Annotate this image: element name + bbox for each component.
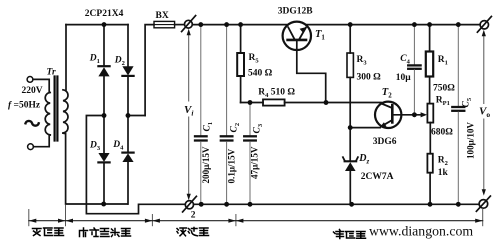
wire fuse riser from tap2: [145, 25, 154, 116]
node D3 bottom on AC2 line: [101, 202, 106, 207]
node R1 top: [427, 22, 432, 27]
svg-text:750Ω: 750Ω: [433, 84, 455, 94]
svg-text:R4 510 Ω: R4 510 Ω: [258, 88, 295, 100]
node C4 top: [412, 22, 417, 27]
wire primary top lead: [33, 79, 49, 92]
AC sine symbol: [26, 121, 39, 126]
node tap1 (D1 anode / D3 anode): [102, 113, 107, 118]
capacitor C4: [408, 25, 420, 115]
label Vo: [477, 104, 492, 119]
svg-text:47μ/15V: 47μ/15V: [250, 146, 260, 179]
junction dots overlay: [101, 22, 460, 207]
diode D2 (cathode down): [122, 25, 133, 116]
transformer Tr primary terminal top: [27, 77, 33, 83]
wire secondary top riser: [65, 25, 67, 90]
svg-text:3DG12B: 3DG12B: [278, 7, 314, 17]
node Dz bottom: [349, 202, 354, 207]
Vo arrow up: [482, 30, 486, 36]
svg-text:2: 2: [191, 211, 196, 221]
svg-text:2CW7A: 2CW7A: [361, 172, 394, 182]
svg-text:f =50Hz: f =50Hz: [8, 100, 41, 110]
svg-text:BX: BX: [156, 11, 169, 21]
capacitor C3: [244, 103, 256, 205]
wire negative bus from tap1: [86, 116, 185, 214]
node C3 top junction: [248, 100, 253, 105]
svg-text:220V: 220V: [22, 86, 43, 96]
dimension extension line x=482.7: [482, 210, 484, 226]
resistor R2: [427, 154, 432, 205]
transformer Tr secondary winding: [63, 90, 68, 133]
wire top rail bridge segment: [66, 24, 128, 26]
dimension extension line x=28.8: [28, 210, 30, 226]
transistor T1: [283, 22, 326, 103]
svg-text:3DG6: 3DG6: [373, 137, 397, 147]
node C2 bottom: [224, 202, 229, 207]
diode D4 (cathode up): [122, 116, 133, 205]
node bridge top junction: [102, 22, 107, 27]
dimension extension line x=152.4: [151, 215, 153, 226]
resistor R5: [237, 25, 244, 103]
resistor R1: [426, 25, 433, 104]
capacitor C2: [221, 25, 233, 205]
node R2 bottom: [428, 202, 433, 207]
node C2 top: [224, 22, 229, 27]
Vi arrow down: [187, 194, 191, 200]
diode D1 (cathode up): [98, 25, 109, 116]
svg-text:Tr: Tr: [47, 68, 56, 78]
wire bottom bus: [194, 203, 480, 205]
dimension extension line x=235.9: [235, 215, 237, 226]
transistor T2: [375, 102, 401, 128]
node C5 bottom: [456, 202, 461, 207]
Vi measurement line: [188, 34, 190, 197]
dimension line span transformer: [29, 220, 483, 222]
node zener top junction: [348, 125, 353, 130]
label Vi: [183, 102, 197, 118]
node C1 top: [199, 22, 204, 27]
wire primary bottom lead: [34, 135, 51, 147]
wire secondary bottom lead: [63, 133, 128, 204]
terminal output bottom-left "2" (circle with slash): [183, 196, 197, 212]
node T1 base junction: [324, 100, 329, 105]
svg-text:100μ/10V: 100μ/10V: [465, 122, 475, 159]
Vo measurement line: [483, 34, 485, 193]
node C5 top: [456, 22, 461, 27]
transformer Tr primary terminal bottom: [28, 144, 34, 150]
potentiometer Rp1: [427, 104, 433, 154]
Vo arrow down: [482, 189, 486, 195]
wire collector line y=102.5: [241, 102, 263, 104]
wire T2 base lead: [392, 114, 424, 116]
svg-text:0.1μ/15V: 0.1μ/15V: [226, 148, 236, 183]
svg-text:1k: 1k: [438, 168, 449, 178]
terminal output + (circle with slash): [477, 16, 491, 32]
Vi arrow up: [187, 29, 191, 35]
resistor R4: [263, 99, 285, 105]
node C4 bottom junction: [412, 113, 417, 118]
label section 稳压器 (regulator): [334, 230, 366, 239]
transformer Tr core: [55, 77, 58, 141]
svg-text:680Ω: 680Ω: [431, 128, 453, 138]
svg-text:200μ/15V: 200μ/15V: [201, 146, 211, 183]
label section 变压器 (transformer): [33, 228, 64, 236]
svg-text:10μ: 10μ: [396, 73, 412, 83]
transformer Tr primary winding: [45, 93, 50, 135]
terminal output bottom-right (circle with slash): [476, 196, 490, 211]
svg-text:540 Ω: 540 Ω: [248, 68, 273, 78]
capacitor C1: [195, 25, 207, 205]
zener diode Dz: [343, 128, 358, 205]
wire top rail left of T1: [192, 24, 287, 26]
node C3 bottom: [248, 202, 253, 207]
dimension extension line x=65.5: [65, 206, 67, 226]
capacitor C5: [452, 25, 464, 205]
wire R4 to T2 collector: [285, 102, 381, 104]
terminal input + (circle with slash): [182, 16, 196, 32]
svg-text:2CP21X4: 2CP21X4: [85, 9, 124, 19]
label section 桥式整流器 (bridge rectifier): [80, 228, 131, 237]
potentiometer wiper arrow: [421, 112, 427, 117]
svg-text:300 Ω: 300 Ω: [357, 72, 382, 82]
wire fuse to terminal 1: [175, 24, 185, 26]
node C1 bottom: [199, 202, 204, 207]
wire T2 emitter to zener: [350, 127, 380, 129]
resistor R3: [347, 25, 353, 128]
node tap2 (D2 cathode / D4 cathode): [126, 113, 131, 118]
wire top rail right of T1: [306, 24, 480, 26]
node R3 top: [348, 22, 353, 27]
wire tap2 to fuse riser: [128, 115, 145, 117]
label section 滤波器 (filter): [177, 228, 209, 236]
node R5 top: [238, 22, 243, 27]
svg-text:www.diangon.com: www.diangon.com: [369, 223, 473, 238]
diode D3 (cathode down): [98, 116, 109, 205]
fuse BX: [154, 21, 175, 27]
dimension arrowheads: [29, 219, 483, 223]
